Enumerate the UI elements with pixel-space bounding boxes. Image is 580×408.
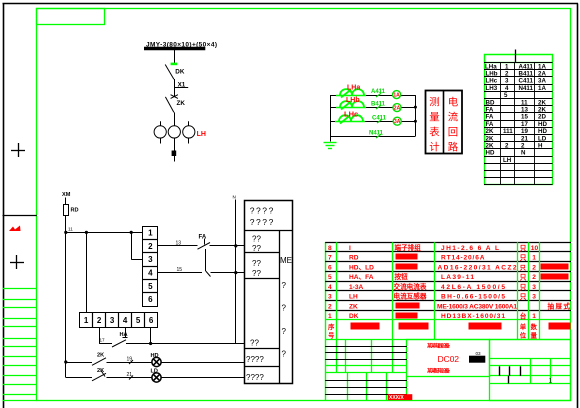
svg-text:HD13BX-1600/31: HD13BX-1600/31 — [441, 313, 505, 320]
svg-text:2D: 2D — [538, 114, 546, 121]
svg-text:????: ???? — [246, 355, 264, 364]
svg-text:??: ?? — [252, 235, 261, 244]
svg-text:3A: 3A — [394, 119, 401, 125]
svg-text:1A: 1A — [538, 85, 546, 92]
svg-text:?: ? — [282, 304, 287, 313]
svg-text:HD: HD — [486, 150, 495, 157]
svg-text:流: 流 — [448, 111, 459, 124]
svg-text:2: 2 — [521, 143, 525, 150]
svg-text:LH: LH — [349, 294, 358, 301]
svg-text:1: 1 — [532, 313, 536, 320]
svg-text:2: 2 — [148, 242, 153, 251]
svg-text:C411: C411 — [519, 78, 534, 85]
svg-text:只: 只 — [520, 244, 527, 252]
svg-text:?: ? — [282, 350, 287, 359]
svg-text:2K: 2K — [486, 143, 494, 150]
svg-text:6: 6 — [148, 295, 153, 304]
svg-text:LHb: LHb — [346, 97, 360, 104]
svg-text:HD: HD — [151, 353, 159, 359]
svg-text:2K: 2K — [97, 368, 104, 374]
svg-text:??: ?? — [250, 339, 259, 348]
svg-text:FA: FA — [486, 107, 494, 114]
svg-text:?: ? — [282, 281, 287, 290]
svg-text:序: 序 — [328, 322, 335, 331]
svg-text:DK: DK — [349, 313, 359, 320]
svg-text:LHc: LHc — [486, 78, 498, 85]
svg-text:2K: 2K — [538, 99, 546, 106]
svg-text:6: 6 — [149, 316, 154, 325]
svg-text:HD: HD — [538, 121, 547, 128]
svg-text:电: 电 — [448, 96, 458, 109]
svg-text:按钮: 按钮 — [395, 272, 409, 281]
svg-text:2K: 2K — [486, 128, 494, 135]
svg-text:N: N — [233, 195, 236, 200]
svg-text:N411: N411 — [369, 131, 384, 137]
svg-text:RT14-20/6A: RT14-20/6A — [441, 255, 485, 262]
svg-text:只: 只 — [520, 283, 527, 291]
svg-text:??: ?? — [252, 269, 261, 278]
svg-text:LHa: LHa — [485, 64, 497, 71]
svg-text:某某电器设备: 某某电器设备 — [426, 343, 451, 350]
svg-text:7: 7 — [328, 255, 332, 262]
svg-text:RD: RD — [349, 255, 359, 262]
svg-text:只: 只 — [520, 265, 527, 272]
svg-text:数: 数 — [531, 322, 538, 331]
svg-text:只: 只 — [520, 293, 527, 301]
svg-text:ME-1600/3 AC380V 1600A1: ME-1600/3 AC380V 1600A1 — [437, 303, 517, 310]
svg-text:4: 4 — [505, 85, 509, 92]
svg-text:3: 3 — [328, 294, 332, 301]
svg-text:ME: ME — [280, 256, 292, 265]
svg-text:号: 号 — [328, 331, 335, 340]
svg-text:HD、LD: HD、LD — [349, 264, 374, 271]
svg-text:HA、FA: HA、FA — [349, 274, 374, 281]
svg-text:I: I — [349, 245, 351, 252]
svg-text:XXX/X: XXX/X — [389, 395, 404, 401]
svg-text:1: 1 — [328, 313, 332, 320]
svg-text:FA: FA — [199, 235, 207, 241]
svg-text:3: 3 — [148, 255, 153, 264]
svg-text:3A: 3A — [538, 78, 546, 85]
svg-text:2: 2 — [328, 303, 332, 310]
svg-text:单: 单 — [520, 322, 527, 331]
svg-text:??: ?? — [252, 259, 261, 268]
svg-text:1A: 1A — [538, 63, 546, 70]
svg-text:AD16-220/31 ACZ2: AD16-220/31 ACZ2 — [438, 264, 517, 271]
svg-text:BD: BD — [486, 99, 495, 106]
svg-text:5: 5 — [328, 274, 332, 281]
svg-text:LHc: LHc — [344, 110, 358, 119]
svg-text:15: 15 — [521, 114, 528, 121]
svg-text:LH: LH — [503, 157, 512, 164]
svg-text:11: 11 — [521, 99, 528, 106]
svg-text:3: 3 — [505, 78, 509, 85]
svg-text:ZK: ZK — [177, 100, 186, 107]
svg-text:21: 21 — [521, 135, 528, 142]
svg-text:4: 4 — [328, 284, 332, 291]
svg-text:17: 17 — [100, 338, 106, 343]
svg-text:03: 03 — [476, 351, 482, 356]
svg-text:XM: XM — [62, 192, 71, 198]
svg-text:??: ?? — [252, 244, 261, 253]
svg-text:19: 19 — [521, 128, 528, 135]
svg-text:电流互感器: 电流互感器 — [394, 292, 427, 301]
svg-text:8: 8 — [328, 245, 332, 252]
svg-text:FA: FA — [486, 114, 494, 121]
svg-text:6: 6 — [328, 264, 332, 271]
svg-text:?: ? — [282, 327, 287, 336]
svg-text:2A: 2A — [394, 106, 401, 112]
svg-text:DC02: DC02 — [438, 354, 460, 364]
svg-text:2: 2 — [505, 143, 509, 150]
svg-text:ZK: ZK — [349, 303, 358, 310]
svg-text:量: 量 — [531, 331, 538, 340]
svg-text:13: 13 — [176, 241, 182, 247]
svg-text:N411: N411 — [519, 85, 534, 92]
svg-text:2: 2 — [505, 71, 509, 78]
svg-text:17: 17 — [521, 121, 528, 128]
svg-text:????: ???? — [250, 206, 274, 216]
svg-text:LHb: LHb — [486, 71, 498, 78]
svg-text:4: 4 — [148, 269, 153, 278]
svg-text:交流电流表: 交流电流表 — [394, 282, 427, 291]
svg-text:5: 5 — [148, 282, 153, 291]
svg-text:位: 位 — [520, 331, 527, 340]
svg-text:只: 只 — [520, 274, 527, 282]
svg-text:台: 台 — [520, 311, 527, 320]
svg-text:HD: HD — [538, 128, 547, 135]
svg-text:量: 量 — [429, 112, 439, 124]
svg-text:测: 测 — [429, 96, 439, 109]
svg-text:B411: B411 — [519, 71, 534, 78]
svg-text:BH-0.66-1500/5: BH-0.66-1500/5 — [441, 294, 505, 301]
svg-text:计: 计 — [429, 141, 439, 154]
svg-text:3: 3 — [532, 284, 536, 291]
svg-text:5: 5 — [504, 92, 508, 99]
svg-text:11: 11 — [68, 227, 73, 232]
svg-text:10: 10 — [531, 245, 539, 252]
svg-text:路: 路 — [448, 141, 459, 154]
svg-text:2A: 2A — [538, 71, 546, 78]
svg-text:111: 111 — [503, 128, 513, 135]
svg-text:1-3A: 1-3A — [349, 284, 364, 291]
svg-text:2: 2 — [532, 274, 536, 281]
svg-text:某某配电设备: 某某配电设备 — [426, 368, 451, 375]
svg-text:13: 13 — [521, 107, 528, 114]
svg-text:H: H — [538, 143, 543, 150]
svg-text:5: 5 — [136, 316, 141, 325]
svg-text:LH: LH — [197, 131, 206, 138]
svg-text:15: 15 — [177, 267, 183, 273]
svg-text:HA: HA — [120, 332, 128, 338]
svg-text:3: 3 — [110, 316, 115, 325]
svg-text:1A: 1A — [393, 93, 400, 99]
svg-text:LD: LD — [151, 368, 158, 374]
svg-text:只: 只 — [520, 254, 527, 262]
svg-text:????: ???? — [250, 217, 274, 227]
svg-text:????: ???? — [246, 373, 264, 382]
svg-text:LD: LD — [538, 135, 547, 142]
svg-text:2: 2 — [97, 316, 102, 325]
svg-text:DK: DK — [175, 68, 185, 75]
svg-text:N: N — [521, 150, 526, 157]
svg-text:RD: RD — [71, 208, 79, 214]
svg-text:A411: A411 — [371, 89, 386, 95]
svg-text:3: 3 — [532, 294, 536, 301]
svg-text:1: 1 — [532, 255, 536, 262]
svg-text:4: 4 — [123, 316, 128, 325]
svg-text:2K: 2K — [538, 107, 546, 114]
svg-text:1: 1 — [84, 316, 89, 325]
svg-text:LHa: LHa — [347, 85, 360, 92]
svg-text:1: 1 — [505, 63, 509, 70]
svg-text:A411: A411 — [519, 63, 534, 70]
svg-text:2K: 2K — [486, 135, 494, 142]
svg-text:FA: FA — [486, 121, 494, 128]
svg-text:回: 回 — [448, 127, 458, 139]
svg-text:表: 表 — [429, 126, 440, 139]
svg-text:2K: 2K — [97, 353, 104, 359]
svg-text:端子排组: 端子排组 — [395, 243, 422, 252]
svg-text:1: 1 — [148, 229, 153, 238]
svg-text:LH3: LH3 — [486, 85, 498, 92]
svg-text:2: 2 — [532, 264, 536, 271]
svg-text:抽屉式: 抽屉式 — [548, 301, 571, 310]
